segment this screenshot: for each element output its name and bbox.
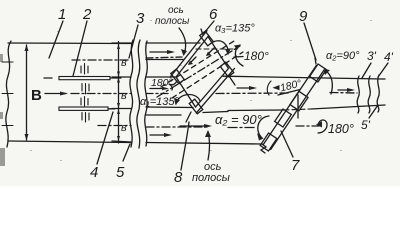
central device parallelogram bbox=[176, 37, 229, 108]
hook from 180 label to device bbox=[169, 81, 177, 90]
svg-text:4: 4 bbox=[90, 164, 98, 181]
leader 8 and label bbox=[181, 122, 189, 170]
band3 flow arrow (left) bbox=[150, 134, 169, 136]
hatch marks below cut 1 bbox=[82, 84, 89, 95]
svg-text:3: 3 bbox=[136, 10, 145, 27]
svg-text:180°: 180° bbox=[244, 49, 269, 63]
svg-text:α₂ = 90°: α₂ = 90° bbox=[215, 112, 262, 127]
rotation arc top bbox=[235, 45, 243, 66]
strip top edge bbox=[8, 42, 131, 45]
leader 3' and label bbox=[362, 63, 371, 78]
leader 4 and label bbox=[97, 112, 113, 164]
band2 right axis dash-dot bbox=[216, 92, 290, 95]
band3 bottom edge bbox=[146, 143, 262, 145]
svg-text:4': 4' bbox=[384, 50, 394, 64]
rotation arrow near top roller bbox=[325, 70, 332, 94]
wavy section break lines bbox=[130, 40, 133, 147]
device diagonal axis dash-dot bbox=[157, 46, 240, 97]
band2 bottom edge (left of device) bbox=[146, 106, 193, 109]
roller L bbox=[171, 69, 185, 84]
svg-text:8: 8 bbox=[174, 169, 183, 186]
rotation arc near device 6 bbox=[213, 41, 228, 54]
band2 right flow arrow 2 bbox=[338, 89, 352, 91]
band3 axis dash-dot bbox=[98, 125, 131, 127]
band3 axis dash under label bbox=[228, 127, 257, 129]
leader 7 and label bbox=[281, 131, 293, 157]
band2 right: bottom edge bbox=[228, 109, 284, 112]
right device middle cross lines bbox=[297, 95, 299, 118]
right device bottom roller bbox=[260, 133, 277, 151]
leader 4' and label bbox=[378, 63, 388, 77]
-180 deg label (top) bbox=[234, 56, 243, 59]
slit cut bar 1 bbox=[44, 77, 52, 79]
svg-text:α₂=90°: α₂=90° bbox=[326, 50, 360, 62]
band1 axis dash-dot bbox=[72, 59, 131, 61]
svg-text:1: 1 bbox=[58, 6, 66, 23]
right device middle roller bbox=[290, 91, 308, 110]
alpha2 angle arc at bottom device bbox=[258, 116, 269, 138]
wavy break lines at right end of band2 bbox=[357, 76, 359, 113]
rail outer line upper-left bbox=[170, 31, 207, 78]
hidden line through top roller bbox=[196, 48, 233, 50]
band3 right axis dash-dot bbox=[296, 125, 319, 127]
band3 flow arrow (mid) bbox=[180, 125, 209, 127]
band1 after break: top edge bbox=[146, 42, 200, 44]
dimension line B (vertical, arrows both ends) bbox=[26, 45, 28, 140]
band2 right of device: top edge bbox=[223, 76, 385, 79]
hidden band edges through device (dashed) bbox=[161, 41, 234, 87]
svg-text:В: В bbox=[31, 87, 42, 104]
top roller tail bbox=[315, 58, 316, 64]
svg-text:6: 6 bbox=[209, 6, 218, 23]
band3 axis dash-dot bbox=[146, 126, 210, 128]
hatch marks below cut 2 bbox=[82, 113, 89, 123]
leader 9 and label bbox=[304, 23, 316, 60]
band1 bottom edge bbox=[146, 59, 184, 61]
svg-text:полосы: полосы bbox=[192, 172, 230, 184]
leader from osi polosy bottom bbox=[208, 132, 210, 160]
roller B tail bbox=[186, 112, 191, 122]
svg-text:α₁=135°: α₁=135° bbox=[140, 96, 180, 108]
svg-text:в: в bbox=[121, 57, 127, 69]
dim arrowheads bbox=[117, 44, 120, 141]
hatch marks above cut 1 bbox=[81, 64, 88, 75]
leader 5' and label bbox=[369, 105, 378, 118]
arrows inside device bbox=[189, 57, 196, 64]
hatch marks above cut 2 bbox=[81, 97, 88, 107]
scan speckles bbox=[30, 20, 372, 161]
leader 1 and label bbox=[49, 21, 63, 58]
svg-text:3': 3' bbox=[367, 49, 377, 63]
band1 flow arrow bbox=[150, 51, 172, 53]
rail outer line lower-right bbox=[196, 68, 234, 113]
svg-text:5': 5' bbox=[361, 118, 371, 132]
leader 5 and label bbox=[123, 144, 130, 161]
zigzag break at end of band3 bottom edge bbox=[261, 144, 266, 153]
left edge axis dashes bbox=[2, 62, 13, 126]
strip bottom edge bbox=[8, 141, 131, 143]
svg-text:5: 5 bbox=[116, 164, 125, 181]
180 deg rotation mark on band2 (arrow + slanted text) bbox=[267, 81, 271, 95]
band2 axis dash-dot bbox=[71, 93, 131, 95]
leader 6 and label bbox=[204, 21, 214, 33]
right device top roller bbox=[310, 64, 327, 82]
dim ticks bbox=[112, 43, 131, 142]
dimension line b (vertical at right of strip) bbox=[118, 42, 120, 144]
right device rails bbox=[271, 71, 324, 150]
band2 axis dash-dot after break bbox=[146, 93, 170, 95]
scan edge artifacts bbox=[0, 54, 5, 166]
svg-text:в: в bbox=[121, 122, 127, 134]
wavy break line left edge of strip bbox=[6, 41, 11, 147]
roller B bbox=[189, 99, 203, 114]
svg-text:в: в bbox=[121, 90, 127, 102]
leader from osi polosy top bbox=[179, 28, 186, 54]
roller R tail bbox=[229, 76, 235, 85]
svg-text:полосы: полосы bbox=[155, 16, 190, 27]
roller R bbox=[220, 62, 234, 77]
leader 2 and label bbox=[73, 21, 87, 76]
arrow from B (flow direction) bbox=[45, 93, 66, 95]
svg-text:ось: ось bbox=[168, 5, 184, 16]
slit cut bar 2 bbox=[59, 107, 108, 110]
rotation mark bottom right: curl bbox=[318, 120, 327, 133]
band2 after break: top edge bbox=[146, 76, 176, 78]
band1 axis dash-dot after break bbox=[146, 57, 182, 58]
roller T bbox=[200, 31, 214, 46]
roller T tail bbox=[201, 29, 203, 35]
svg-text:7: 7 bbox=[291, 157, 300, 174]
leader 3 and label bbox=[129, 25, 138, 58]
svg-text:180°: 180° bbox=[328, 122, 354, 136]
svg-text:2: 2 bbox=[82, 6, 92, 23]
alpha1 angle arc bbox=[176, 95, 200, 104]
svg-text:α₃=135°: α₃=135° bbox=[215, 23, 255, 35]
svg-text:9: 9 bbox=[299, 8, 308, 25]
right device second rung bbox=[275, 109, 292, 127]
band2 right flow arrow 1 bbox=[237, 87, 254, 89]
band3 after break: top edge bbox=[146, 114, 181, 116]
